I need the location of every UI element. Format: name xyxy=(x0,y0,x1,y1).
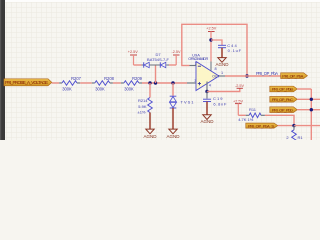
power flag +2.5V above op-amp xyxy=(206,27,216,62)
svg-text:R11: R11 xyxy=(249,107,257,112)
pin 2 lead xyxy=(189,65,196,67)
svg-text:+2.5V: +2.5V xyxy=(206,27,216,31)
svg-text:AGND: AGND xyxy=(200,119,214,124)
junction V- / C19 xyxy=(205,90,208,93)
junction node to R214 xyxy=(148,81,151,84)
wire R209 to op-amp xyxy=(142,82,187,84)
svg-text:300K: 300K xyxy=(124,87,134,92)
svg-text:4.7K 1%: 4.7K 1% xyxy=(238,117,254,122)
wire V- to -2.5V flag xyxy=(207,88,240,91)
svg-text:R208: R208 xyxy=(104,76,115,81)
svg-text:5.9K: 5.9K xyxy=(138,104,147,109)
resistor R209 xyxy=(121,76,143,92)
svg-text:300K: 300K xyxy=(62,87,72,92)
svg-text:R207: R207 xyxy=(71,76,82,81)
junction R11/port/R215 xyxy=(292,124,295,127)
TVS diode TVS1 xyxy=(170,96,195,108)
op-amp U9A OPA2344AIDR xyxy=(188,52,225,91)
port PRI_OP_PbA xyxy=(281,73,308,79)
wire port to junction xyxy=(278,125,294,127)
wire down to TVS1 xyxy=(172,83,174,96)
svg-text:AGND: AGND xyxy=(166,134,180,139)
wire port to R207 xyxy=(52,82,59,84)
capacitor C19 xyxy=(203,92,227,115)
junction bus/PbD xyxy=(310,108,313,111)
svg-text:-2.5V: -2.5V xyxy=(171,50,181,54)
port PRI_OP_PbC xyxy=(270,97,297,103)
vertical bus wire right xyxy=(310,89,312,140)
svg-text:300K: 300K xyxy=(95,87,105,92)
svg-text:PRI_OP_PbC: PRI_OP_PbC xyxy=(272,97,293,102)
svg-text:AGND: AGND xyxy=(215,62,229,67)
svg-text:PRI_OP_PbD: PRI_OP_PbD xyxy=(272,107,293,112)
wire down to R214 xyxy=(149,83,151,98)
port PRI_OP_PbA_RTN xyxy=(246,123,278,128)
wire junction to right edge xyxy=(294,125,320,127)
port PRI_OP_PbD xyxy=(270,107,297,113)
ground AGND under C19 xyxy=(200,115,214,124)
svg-text:+2.5V: +2.5V xyxy=(128,50,138,54)
pin 3 lead xyxy=(187,82,196,84)
svg-text:PRI_OP_PbA: PRI_OP_PbA xyxy=(282,73,303,78)
resistor R208 xyxy=(92,76,115,92)
resistor R215 (clipped at bottom) xyxy=(286,126,303,142)
feedback wire output to pin2 xyxy=(182,24,247,76)
diode D7 BAT54S-7-F xyxy=(142,52,170,68)
power flag -2.5V (V- rail) xyxy=(235,84,245,88)
R214 lower lead xyxy=(149,113,151,130)
svg-text:R1: R1 xyxy=(298,135,304,140)
output pin lead xyxy=(219,75,225,77)
svg-text:C19: C19 xyxy=(213,96,223,101)
wire from PbD port xyxy=(297,109,320,111)
svg-text:PRI_OP_PbA_S: PRI_OP_PbA_S xyxy=(248,123,274,128)
power flag +2.5V at R11 xyxy=(233,99,243,115)
svg-text:PRI_OP_PbA: PRI_OP_PbA xyxy=(256,71,278,76)
power flag -2.5V (right of D7) xyxy=(171,50,181,65)
junction node to D7 xyxy=(154,81,157,84)
svg-text:OPA2344AIDR: OPA2344AIDR xyxy=(188,56,208,61)
ground AGND under TVS1 xyxy=(166,129,180,139)
svg-text:R209: R209 xyxy=(132,76,143,81)
wire R11 to junction xyxy=(265,115,294,125)
resistor R207 xyxy=(59,76,81,92)
junction output/feedback xyxy=(245,74,248,77)
svg-text:BAT54S-7-F: BAT54S-7-F xyxy=(147,57,169,62)
wire R208 to R209 xyxy=(113,82,121,84)
svg-text:2: 2 xyxy=(195,61,197,65)
svg-text:6.8nF: 6.8nF xyxy=(213,101,227,106)
wire from PbC port xyxy=(297,98,320,100)
wire from PbB port xyxy=(297,88,311,90)
wire R207 to R208 xyxy=(80,82,92,84)
svg-text:OUT: OUT xyxy=(212,74,219,78)
wire D7 to right flag xyxy=(169,64,176,66)
svg-text:1: 1 xyxy=(221,71,223,75)
svg-text:R214: R214 xyxy=(138,98,148,103)
resistor R214 xyxy=(138,98,153,115)
svg-text:PRI_PROBE_A_VOLTAGE: PRI_PROBE_A_VOLTAGE xyxy=(5,80,48,85)
junction V+ / C44 xyxy=(209,38,212,41)
wire up to D7 xyxy=(155,65,157,83)
svg-text:0.1uF: 0.1uF xyxy=(228,48,242,53)
svg-text:3: 3 xyxy=(194,79,196,83)
resistor R11 xyxy=(238,107,265,122)
junction bus/PbC xyxy=(310,98,313,101)
svg-text:+2.5V: +2.5V xyxy=(233,99,243,103)
svg-text:8: 8 xyxy=(215,67,217,71)
capacitor C44 xyxy=(218,43,242,57)
power flag +2.5V (left of D7) xyxy=(128,50,138,65)
ground AGND under C44 xyxy=(215,58,229,67)
ground AGND under R214 xyxy=(143,129,157,139)
svg-text:AGND: AGND xyxy=(143,134,157,139)
svg-text:±1%: ±1% xyxy=(138,110,146,115)
svg-text:4: 4 xyxy=(209,84,211,88)
junction node to TVS1 xyxy=(171,81,174,84)
TVS1 lower lead xyxy=(172,108,174,129)
wire to C44 xyxy=(211,40,222,45)
wire flag to D7 xyxy=(134,64,142,66)
port PRI_PROBE_A_VOLTAGE xyxy=(4,79,52,86)
V+ pin lead xyxy=(210,62,212,71)
svg-text:PRI_OP_PbB: PRI_OP_PbB xyxy=(272,87,293,92)
port PRI_OP_PbB xyxy=(270,86,297,92)
output wire to port xyxy=(225,75,281,77)
svg-text:-2.5V: -2.5V xyxy=(235,84,245,88)
left panel edge xyxy=(0,0,5,140)
V- pin lead xyxy=(206,82,208,92)
svg-text:TVS1: TVS1 xyxy=(181,100,195,105)
